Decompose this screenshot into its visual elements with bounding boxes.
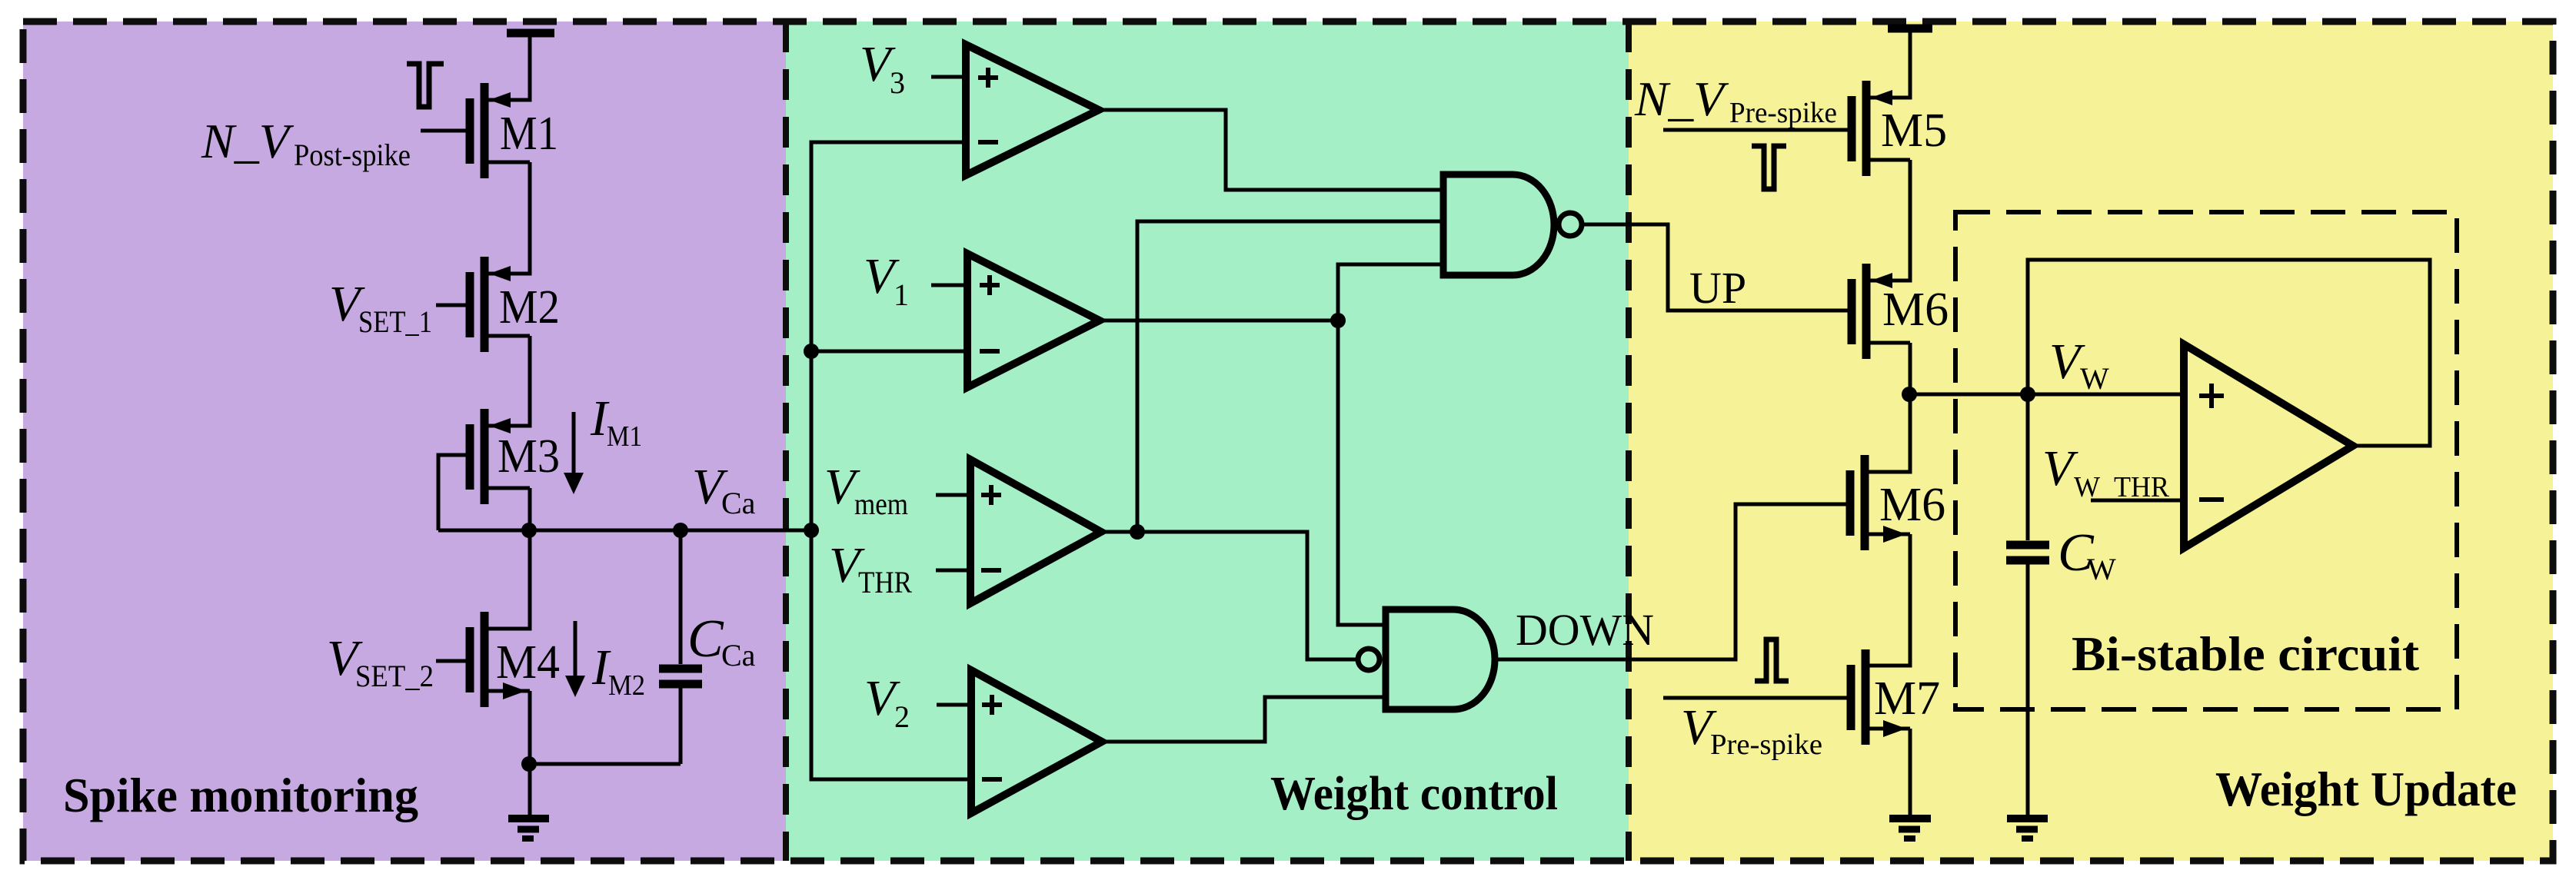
svg-text:SET_1: SET_1 xyxy=(358,304,432,339)
svg-text:M1: M1 xyxy=(607,420,642,453)
svg-text:Spike monitoring: Spike monitoring xyxy=(63,768,418,822)
NAND gate UP (U1) xyxy=(1443,174,1582,275)
positive pulse symbol at M7 gate xyxy=(1755,639,1789,681)
comparator Vmem/VTHR (op-amp) xyxy=(970,460,1101,603)
comparator V2 (op-amp) xyxy=(971,670,1102,813)
wire comparator V3 output to NAND UP input1 xyxy=(1099,110,1443,190)
current arrow IM2 xyxy=(574,621,577,679)
svg-text:Ca: Ca xyxy=(721,486,756,520)
wire Vmem output to NAND DOWN bubble input xyxy=(1137,532,1356,659)
svg-text:Ca: Ca xyxy=(721,638,756,672)
dashed separator green/yellow xyxy=(1626,22,1632,861)
svg-text:1: 1 xyxy=(894,277,909,312)
comparator V1 (op-amp) xyxy=(967,254,1100,387)
svg-text:Weight Update: Weight Update xyxy=(2215,762,2517,816)
svg-text:M6: M6 xyxy=(1882,284,1949,336)
wire NAND UP output to M6 gate (UP signal) xyxy=(1584,224,1849,311)
transistor M5 (PMOS) xyxy=(1852,81,1910,176)
junction VCa rail / node line xyxy=(804,523,819,538)
gate wire M2 xyxy=(436,304,466,307)
capacitor CW xyxy=(2006,394,2049,815)
svg-text:M5: M5 xyxy=(1881,105,1947,157)
svg-text:3: 3 xyxy=(890,65,905,100)
transistor M6 upper (PMOS) xyxy=(1852,264,1910,359)
wire comparator Vmem output xyxy=(1101,530,1137,534)
capacitor CCa xyxy=(530,530,702,764)
wire M4 source down to ground xyxy=(528,691,532,815)
svg-text:M4: M4 xyxy=(496,636,560,689)
wire M5 source to M6 drain xyxy=(1870,160,1910,281)
junction Vmem comparator output xyxy=(1130,524,1145,540)
svg-text:V: V xyxy=(2042,440,2078,496)
junction VW at M6 xyxy=(1902,387,1917,402)
ground symbol (M7) xyxy=(1889,819,1931,839)
NAND gate DOWN (U2) xyxy=(1358,609,1495,709)
svg-text:M2: M2 xyxy=(499,281,560,334)
wire Vmem output to NAND UP input2 xyxy=(1137,221,1443,532)
current arrow IM1 xyxy=(572,412,576,477)
junction V1 output xyxy=(1330,313,1346,328)
transistor M6 lower (NMOS) xyxy=(1850,455,1910,550)
ground symbol (CW) xyxy=(2007,819,2048,839)
svg-text:mem: mem xyxy=(854,487,908,521)
wire V2 plus stub xyxy=(937,703,971,707)
feedback wire comparator output to VW xyxy=(2028,260,2430,446)
gate wire M4 xyxy=(436,659,466,663)
wire comparator V1 output xyxy=(1100,319,1338,323)
gate wire M7 xyxy=(1663,696,1847,700)
wire VW_THR minus stub xyxy=(2091,499,2184,503)
junction VCa rail / V1 minus xyxy=(804,344,819,359)
wire M7 source to ground xyxy=(1909,729,1912,815)
svg-text:Pre-spike: Pre-spike xyxy=(1729,97,1837,129)
junction node M3/M4 xyxy=(521,523,537,538)
transistor M2 (PMOS) xyxy=(470,257,530,352)
region Weight Update (yellow fill) xyxy=(1629,22,2553,861)
svg-text:SET_2: SET_2 xyxy=(355,659,434,693)
comparator bi-stable (op-amp) xyxy=(2184,344,2353,548)
wire M2 source to M3 drain xyxy=(488,336,530,426)
wire VW node down to M6 lower drain xyxy=(1869,394,1910,472)
ground symbol (spike monitoring) xyxy=(508,819,549,839)
gate wire M3 to node VCa xyxy=(438,455,466,530)
svg-text:W: W xyxy=(2080,361,2109,396)
negative pulse symbol at M1 gate xyxy=(407,64,444,107)
region Spike monitoring (purple fill) xyxy=(23,22,786,861)
svg-text:M6: M6 xyxy=(1879,479,1945,531)
wire M6 lower source to M7 drain xyxy=(1869,534,1910,666)
svg-text:UP: UP xyxy=(1689,263,1746,313)
wire V1 output to NAND UP input3 xyxy=(1338,264,1443,320)
wire VDD to M1 drain xyxy=(488,33,530,100)
transistor M3 (PMOS diode-connected) xyxy=(470,409,530,504)
wire Vmem plus stub xyxy=(936,493,970,497)
wire VDD to M5 drain xyxy=(1870,28,1910,98)
region Weight control (green fill) xyxy=(786,22,1629,861)
gate wire M1 xyxy=(421,129,466,133)
wire M3 source to node xyxy=(528,488,532,530)
svg-text:DOWN: DOWN xyxy=(1516,605,1654,655)
svg-text:Pre-spike: Pre-spike xyxy=(1710,729,1822,761)
dashed separator purple/green xyxy=(783,22,789,861)
VDD supply bar (purple section) xyxy=(507,29,554,38)
wire comparator V2 output to NAND DOWN input3 xyxy=(1102,697,1386,742)
junction VW at CW/feedback xyxy=(2020,387,2035,402)
wire M1 source to M2 drain xyxy=(488,162,530,274)
wire V1 output to NAND DOWN input1 xyxy=(1338,320,1386,625)
svg-text:M2: M2 xyxy=(608,669,645,702)
svg-text:N_V: N_V xyxy=(1634,71,1729,126)
transistor M1 (PMOS) xyxy=(470,83,530,178)
bi-stable circuit dashed box xyxy=(1955,212,2457,709)
VCa rail in weight control xyxy=(811,142,971,779)
gate wire M5 xyxy=(1663,128,1848,132)
wire node to M4 drain xyxy=(488,530,530,629)
svg-text:W_THR: W_THR xyxy=(2074,471,2170,503)
svg-text:Bi-stable circuit: Bi-stable circuit xyxy=(2072,626,2420,681)
negative pulse symbol at M5 gate xyxy=(1752,146,1786,189)
transistor M7 (NMOS) xyxy=(1851,649,1910,745)
svg-text:Post-spike: Post-spike xyxy=(294,138,411,172)
node VW wire to comparator xyxy=(1909,393,2184,397)
svg-text:N_V: N_V xyxy=(201,114,295,168)
junction node capacitor CCa xyxy=(673,523,688,538)
wire V1 minus input xyxy=(811,350,967,354)
wire V3 plus stub xyxy=(931,75,966,79)
svg-text:2: 2 xyxy=(894,699,910,734)
svg-text:M3: M3 xyxy=(498,430,560,483)
VDD supply bar (weight update) xyxy=(1888,25,1932,33)
svg-text:C: C xyxy=(687,609,724,669)
wire M6 source to VW node xyxy=(1909,343,1912,394)
svg-text:THR: THR xyxy=(858,565,912,599)
transistor M4 (NMOS) xyxy=(470,612,530,707)
node VCa horizontal wire xyxy=(438,529,811,533)
svg-text:M7: M7 xyxy=(1874,672,1940,725)
wire NAND DOWN output to M6 lower gate (DOWN signal) xyxy=(1496,504,1846,659)
comparator V3 (op-amp) xyxy=(966,45,1099,175)
wire V1 plus stub xyxy=(931,284,967,287)
junction M4 source / CCa bottom xyxy=(521,756,537,772)
svg-text:M1: M1 xyxy=(500,108,558,160)
wire VTHR minus stub xyxy=(936,569,970,573)
svg-text:Weight control: Weight control xyxy=(1270,768,1558,820)
svg-text:W: W xyxy=(2087,552,2116,586)
